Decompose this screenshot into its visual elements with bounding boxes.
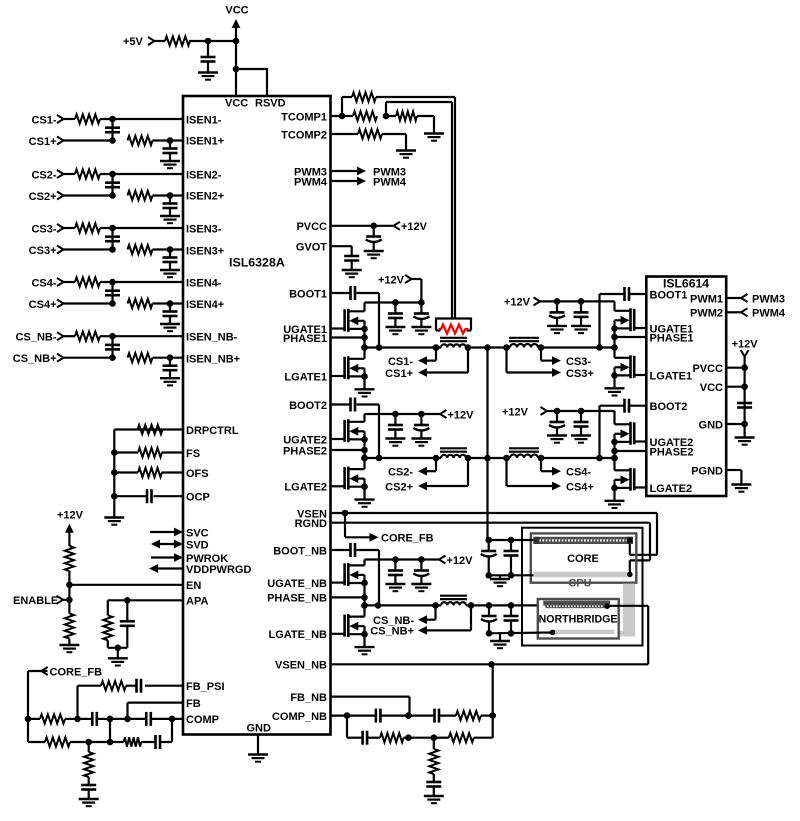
capacitor CORE ceramic xyxy=(504,540,519,575)
net label CS3- xyxy=(31,223,63,235)
svg-text:PWM4: PWM4 xyxy=(752,308,786,320)
node FB_PSI tap xyxy=(74,716,81,723)
net label CS2+ xyxy=(29,191,64,203)
bar CPU gray L horizontal xyxy=(552,631,635,637)
svg-text:+5V: +5V xyxy=(123,36,144,48)
svg-text:CS3-: CS3- xyxy=(566,356,591,368)
MOSFET phase2 high-side xyxy=(331,419,365,442)
svg-text:CS2+: CS2+ xyxy=(29,191,57,203)
label CORE xyxy=(567,553,599,565)
wire CS_NB- input xyxy=(64,335,184,337)
net label CS2+ xyxy=(385,481,413,493)
wire VCC U2 pin xyxy=(726,383,748,390)
wire CS2- input xyxy=(64,173,184,175)
capacitor NB ceramic xyxy=(504,605,519,633)
ground phase1 low-side xyxy=(355,389,375,396)
svg-text:LGATE1: LGATE1 xyxy=(650,370,693,382)
ground phase1 rail cap1 xyxy=(385,327,405,334)
svg-text:PWM4: PWM4 xyxy=(373,176,407,188)
wire PWM2 input xyxy=(726,308,786,320)
wire VCORE feed vertical xyxy=(486,348,488,541)
node COMP tap xyxy=(169,716,176,723)
node L_NB terminals xyxy=(432,602,474,609)
MOSFET phase1 low-side xyxy=(331,356,365,379)
IC U1 ISL6328A controller body xyxy=(183,96,331,735)
wire phase4 low-side drain xyxy=(613,458,615,470)
node phaseNB rail caps xyxy=(392,556,425,563)
svg-text:UGATE_NB: UGATE_NB xyxy=(267,578,327,590)
capacitor bootstrap phase1 xyxy=(351,286,356,300)
net label CS2- xyxy=(388,467,413,479)
net label ENABLE xyxy=(13,595,63,607)
bar CPU gray L vertical xyxy=(623,584,635,637)
node CORE top sense xyxy=(627,538,633,544)
node L2 terminals xyxy=(433,455,472,462)
wire VSEN_NB sense xyxy=(331,606,649,665)
resistor APA xyxy=(103,615,112,640)
ground U2 GND xyxy=(735,438,755,445)
svg-text:LGATE2: LGATE2 xyxy=(284,482,327,494)
capacitor CS3+ filter xyxy=(163,250,178,270)
svg-text:ENABLE: ENABLE xyxy=(13,595,58,607)
wire +12V phase3 stub xyxy=(540,300,557,302)
wire CS4- sense xyxy=(541,458,561,476)
capacitor CS2+ filter xyxy=(163,196,178,216)
svg-text:PWM2: PWM2 xyxy=(690,308,723,320)
resistor COMP_NB shunt xyxy=(429,738,438,774)
box CPU outline xyxy=(522,528,643,646)
net label CS_NB+ xyxy=(13,353,64,365)
capacitor NB bulk xyxy=(481,605,497,633)
svg-text:CORE_FB: CORE_FB xyxy=(50,666,103,678)
svg-text:SVD: SVD xyxy=(186,539,209,551)
svg-text:VCC: VCC xyxy=(225,5,248,17)
wire VCORE node line upper xyxy=(365,346,615,348)
box CORE outline xyxy=(531,533,637,582)
box NORTHBRIDGE outline xyxy=(538,599,619,639)
wire FB branch xyxy=(128,703,184,719)
node NB return row xyxy=(486,630,515,637)
svg-text:LGATE1: LGATE1 xyxy=(284,371,327,383)
wire +5V to VCC xyxy=(155,40,236,42)
net label +12V at PVCC xyxy=(394,221,428,233)
capacitor CS2-/CS2+ differential xyxy=(105,174,120,196)
wire PVCC pin xyxy=(331,225,394,227)
net label CS3- xyxy=(566,356,591,368)
wire phase4 high-side drain to +12V rail xyxy=(557,411,615,424)
wire TCOMP1 to thermistor xyxy=(386,102,452,319)
resistor CS2- series xyxy=(75,169,100,178)
resistor TCOMP2 series xyxy=(358,129,382,138)
ground CS4+ cap xyxy=(160,324,180,331)
net label CS_NB+ xyxy=(370,626,414,638)
capacitor CS_NB+ filter xyxy=(163,358,178,378)
wire GVOT pin xyxy=(331,246,352,256)
wire PHASE phase4 pin xyxy=(615,450,647,452)
capacitor PVCC decoupling xyxy=(366,226,382,251)
node +5V junction xyxy=(205,38,240,45)
wire FB row1 xyxy=(28,718,183,720)
wire BOOT phase3 xyxy=(600,294,647,348)
svg-text:BOOT_NB: BOOT_NB xyxy=(273,545,327,557)
ground phase4 rail cap1 xyxy=(547,436,567,443)
ground phase4 rail cap2 xyxy=(571,436,591,443)
wire phase4 switch-node bus xyxy=(613,434,615,458)
net label +12V phase1 feed xyxy=(378,274,412,286)
node phase4 bus junctions xyxy=(611,439,618,462)
svg-text:CS1-: CS1- xyxy=(31,114,56,126)
wire +12V phase2 stub xyxy=(421,413,440,415)
ground FB shunt xyxy=(79,799,99,806)
svg-text:DRPCTRL: DRPCTRL xyxy=(186,425,239,437)
svg-text:CS4-: CS4- xyxy=(566,467,591,479)
svg-text:CS1-: CS1- xyxy=(388,356,413,368)
ground +5V cap xyxy=(198,73,218,80)
ground phase3 rail cap2 xyxy=(571,326,591,333)
capacitor CS3-/CS3+ differential xyxy=(105,228,120,250)
wire CS4+ sense xyxy=(507,458,562,490)
wire PHASE phase1 pin xyxy=(331,336,365,338)
wire DRPCTRL pin xyxy=(114,430,183,518)
node phase4 low-side source xyxy=(611,485,618,492)
wire TCOMP2 pin xyxy=(331,134,407,150)
resistor CS1+ series xyxy=(128,136,153,145)
wire PGND U2 pin xyxy=(726,470,741,484)
resistor FB row1 xyxy=(40,714,65,723)
capacitor bootstrap phase2 xyxy=(351,398,356,412)
wire TCOMP1 pin xyxy=(331,115,354,117)
thermistor box xyxy=(436,319,471,331)
svg-text:PVCC: PVCC xyxy=(692,363,723,375)
capacitor COMP_NB a xyxy=(376,709,381,723)
wire phase3 low-side drain xyxy=(613,348,615,358)
wire OFS pin xyxy=(114,471,183,473)
svg-text:FB_PSI: FB_PSI xyxy=(186,681,225,693)
ground GVOT cap xyxy=(342,270,362,277)
wire CS2+ input xyxy=(64,194,184,196)
node phase2 bus junctions xyxy=(361,436,368,461)
MOSFET phase3 high-side xyxy=(615,308,647,331)
node PVCC junction xyxy=(370,223,377,230)
node CS2- junction xyxy=(109,171,116,178)
resistor COMP_NB row2 b xyxy=(449,733,474,742)
wire phase4 low-side source xyxy=(613,480,615,501)
net label CS3+ xyxy=(566,368,594,380)
svg-text:+12V: +12V xyxy=(502,406,529,418)
resistor DRPCTRL xyxy=(138,425,163,434)
net label +12V phase3 xyxy=(504,297,540,309)
svg-text:+12V: +12V xyxy=(447,555,474,567)
svg-text:VCC: VCC xyxy=(700,382,723,394)
svg-text:VDDPWRGD: VDDPWRGD xyxy=(186,564,251,576)
ground phase2 low-side xyxy=(355,500,375,507)
node CS1+ cap junction xyxy=(167,137,174,144)
capacitor OCP xyxy=(147,489,152,503)
node COMP_NB right xyxy=(489,712,496,719)
capacitor CS_NB-/CS_NB+ differential xyxy=(105,336,120,358)
capacitor FB row1 a xyxy=(92,712,97,726)
node CS3+ cap junction xyxy=(167,246,174,253)
svg-text:PVCC: PVCC xyxy=(296,221,327,233)
resistor TCOMP1 lower xyxy=(353,111,377,120)
capacitor bootstrap phaseNB xyxy=(351,543,356,557)
svg-text:GND: GND xyxy=(247,723,272,735)
node OFS junction xyxy=(111,469,118,476)
node L1 terminals xyxy=(433,344,472,351)
svg-text:CS3+: CS3+ xyxy=(29,245,57,257)
resistor TCOMP1 upper xyxy=(352,92,376,101)
svg-text:PHASE2: PHASE2 xyxy=(283,445,327,457)
power flag VCC xyxy=(225,5,248,97)
bar NORTHBRIDGE bottom gray xyxy=(551,630,614,634)
net label CS1+ xyxy=(385,368,413,380)
svg-text:CORE: CORE xyxy=(567,553,599,565)
wire VDDPWRGD output xyxy=(149,564,183,573)
svg-text:ISEN1+: ISEN1+ xyxy=(186,135,224,147)
node TCOMP1 junction B xyxy=(383,113,390,120)
node ENABLE tap xyxy=(66,597,73,604)
node CS4+ junction xyxy=(109,300,116,307)
ground phase3 rail cap1 xyxy=(547,326,567,333)
svg-text:GVOT: GVOT xyxy=(296,242,327,254)
capacitor FB_PSI xyxy=(137,679,142,693)
wire SVC input xyxy=(150,528,183,537)
svg-text:CS_NB+: CS_NB+ xyxy=(13,353,57,365)
node CS_NB+ junction xyxy=(109,354,116,361)
node CS_NB+ cap junction xyxy=(167,354,174,361)
node phase2 rail caps xyxy=(392,411,425,418)
node FB row2 shunt tap xyxy=(85,739,92,746)
wire phaseNB high-side drain to +12V rail xyxy=(365,560,422,566)
wire PVCC U2 pin xyxy=(726,364,748,371)
svg-text:LGATE_NB: LGATE_NB xyxy=(269,629,328,641)
resistor CS_NB- series xyxy=(75,332,100,341)
wire CS1+ input xyxy=(64,139,184,141)
node FB row1 mid xyxy=(107,716,114,723)
node APA junction xyxy=(124,597,131,604)
node CS2+ cap junction xyxy=(167,192,174,199)
wire +12V phase1 feed xyxy=(412,279,422,303)
svg-text:PWM1: PWM1 xyxy=(690,293,723,305)
resistor CS4- series xyxy=(75,277,100,286)
IC U1 top pin labels VCC RSVD xyxy=(225,98,286,110)
capacitor phase1 rail ceramic xyxy=(388,303,403,327)
node phase1 low-side source xyxy=(361,373,368,380)
wire CORE_FB drop xyxy=(28,671,48,742)
resistor EN divider upper xyxy=(65,546,74,571)
resistor CS2+ series xyxy=(128,191,153,200)
wire BOOT phaseNB xyxy=(331,550,380,605)
MOSFET phase2 low-side xyxy=(331,467,365,490)
net label CORE_FB input xyxy=(41,666,102,678)
node VCORE upper junctions xyxy=(361,344,618,351)
svg-text:PHASE2: PHASE2 xyxy=(650,446,694,458)
capacitor +5V decoupling xyxy=(201,41,216,72)
capacitor phase4 rail bulk xyxy=(549,411,565,435)
ground PVCC cap xyxy=(364,251,384,258)
wire phase1 low-side drain xyxy=(363,348,365,359)
svg-text:CS1+: CS1+ xyxy=(385,368,413,380)
node VCORE lower junctions xyxy=(361,455,618,462)
wire APA gnd stem xyxy=(117,648,119,658)
svg-text:CS_NB-: CS_NB- xyxy=(16,332,57,344)
wire FB rows vertical xyxy=(109,719,111,742)
svg-text:LGATE2: LGATE2 xyxy=(650,483,693,495)
ground phase3 low-side xyxy=(605,388,625,395)
node FB row2 mid xyxy=(107,739,114,746)
svg-text:GND: GND xyxy=(699,419,724,431)
capacitor phase2 rail ceramic xyxy=(388,414,403,438)
svg-text:ISL6328A: ISL6328A xyxy=(229,256,285,270)
net label +12V phase4 xyxy=(502,406,547,418)
capacitor U2 VCC decoupling xyxy=(737,403,752,408)
ground U2 PGND xyxy=(731,485,751,492)
svg-text:FB: FB xyxy=(186,698,201,710)
svg-text:CS1+: CS1+ xyxy=(29,136,57,148)
wire phase3 switch-node bus xyxy=(613,320,615,347)
wire PHASE phase2 pin xyxy=(331,449,365,451)
resistor FS xyxy=(138,448,162,457)
ground CS_NB+ cap xyxy=(160,378,180,385)
node phase1 bus junctions xyxy=(361,326,368,351)
node NORTHBRIDGE top sense xyxy=(604,603,610,609)
svg-text:+12V: +12V xyxy=(732,338,759,350)
net label +12V EN divider xyxy=(57,510,84,546)
capacitor bootstrap phase3 xyxy=(625,287,630,301)
label CPU xyxy=(568,578,591,590)
svg-text:TCOMP1: TCOMP1 xyxy=(281,111,327,123)
inductor L4 xyxy=(509,448,539,458)
wire phase2 low-side drain xyxy=(363,458,365,469)
wire PWM4 output xyxy=(331,176,407,188)
IC U1 right pin labels xyxy=(267,111,328,723)
node VSEN CORE_FB tap xyxy=(342,510,349,517)
node CS3- junction xyxy=(109,225,116,232)
ground DRPCTRL rail xyxy=(104,518,124,525)
wire CORE_FB output xyxy=(345,513,434,545)
node VCC-RSVD tap xyxy=(233,66,240,73)
svg-text:ISEN4-: ISEN4- xyxy=(186,277,222,289)
bar CORE bottom gray xyxy=(534,572,628,578)
ground CORE caps xyxy=(490,579,510,586)
resistor CS4+ series xyxy=(128,299,153,308)
svg-text:VSEN_NB: VSEN_NB xyxy=(275,660,327,672)
capacitor GVOT xyxy=(344,256,359,270)
resistor FB row2 b xyxy=(124,737,142,746)
resistor CS_NB+ series xyxy=(128,353,153,362)
wire OCP pin xyxy=(114,495,183,497)
node phase4 rail caps xyxy=(554,408,585,415)
wire phaseNB low-side source xyxy=(363,626,365,647)
MOSFET phaseNB high-side xyxy=(331,563,365,586)
node CS1- junction xyxy=(109,116,116,123)
resistor CS3- series xyxy=(75,223,100,232)
node CS4- junction xyxy=(109,279,116,286)
svg-text:CPU: CPU xyxy=(568,578,591,590)
svg-text:BOOT1: BOOT1 xyxy=(650,289,688,301)
svg-text:ISEN3+: ISEN3+ xyxy=(186,245,224,257)
wire phase3 high-side drain to +12V rail xyxy=(557,301,615,310)
IC U2 ISL6614 driver body xyxy=(646,277,726,497)
capacitor bootstrap phase4 xyxy=(625,399,630,413)
wire phase1 switch-node bus xyxy=(363,321,365,348)
wire CS4- input xyxy=(64,281,184,283)
svg-text:ISEN3-: ISEN3- xyxy=(186,223,222,235)
IC U2 left pin labels xyxy=(650,289,694,495)
svg-text:PWM3: PWM3 xyxy=(752,293,785,305)
MOSFET phase1 high-side xyxy=(331,309,365,332)
svg-text:CS4-: CS4- xyxy=(31,277,56,289)
net label CS3+ xyxy=(29,245,64,257)
net label CS1+ xyxy=(29,136,64,148)
svg-text:ISEN1-: ISEN1- xyxy=(186,114,222,126)
wire phase3 low-side source xyxy=(613,367,615,388)
wire FB row2 xyxy=(28,719,172,742)
wire phase2 switch-node bus xyxy=(363,431,365,458)
node L3 terminals xyxy=(503,344,544,351)
wire FB_NB branch xyxy=(331,697,410,716)
node L4 terminals xyxy=(503,455,544,462)
svg-text:CS2-: CS2- xyxy=(31,169,56,181)
node phase3 bus junctions xyxy=(611,325,618,351)
node CS2+ junction xyxy=(109,192,116,199)
svg-text:ISEN_NB-: ISEN_NB- xyxy=(186,332,238,344)
ground CS1+ cap xyxy=(160,161,180,168)
ground TCOMP1 xyxy=(424,134,444,141)
net label CS4- xyxy=(31,277,63,289)
IC U2 right pin labels xyxy=(690,293,723,477)
node phaseNB low-side source xyxy=(361,631,368,638)
wire CS1- sense xyxy=(418,348,436,366)
capacitor phase3 rail bulk xyxy=(549,301,565,325)
node VNB junctions xyxy=(361,602,514,609)
wire BOOT phase1 xyxy=(331,293,380,348)
ground phase1 rail cap2 xyxy=(411,327,431,334)
node CORE bottom sense xyxy=(627,572,633,578)
wire phase1 high-side drain to +12V rail xyxy=(365,303,422,312)
svg-text:CS4+: CS4+ xyxy=(566,481,594,493)
net label CS4+ xyxy=(566,481,594,493)
resistor CS1- series xyxy=(75,114,100,123)
capacitor phaseNB rail bulk xyxy=(413,560,429,584)
wire COMP_NB row2 xyxy=(347,664,493,737)
net label CS2- xyxy=(31,169,63,181)
socket bar CORE top xyxy=(533,537,633,544)
svg-text:ISEN2-: ISEN2- xyxy=(186,169,222,181)
node CS1+ junction xyxy=(109,137,116,144)
wire CORE return row xyxy=(489,574,534,576)
node COMP_NB row2 junctions xyxy=(405,734,437,741)
net label +12V at U2 xyxy=(732,338,759,356)
svg-text:BOOT2: BOOT2 xyxy=(650,401,688,413)
net label +5V xyxy=(123,36,155,48)
node phase2 low-side source xyxy=(361,483,368,490)
wire CS2+ sense xyxy=(418,458,468,490)
capacitor FB shunt xyxy=(81,777,96,799)
node COMP_NB mid xyxy=(405,712,412,719)
label NORTHBRIDGE xyxy=(539,614,618,626)
svg-text:PHASE1: PHASE1 xyxy=(650,332,694,344)
capacitor COMP_NB shunt xyxy=(426,774,441,796)
wire phase2 high-side drain to +12V rail xyxy=(365,414,422,422)
capacitor CORE bulk xyxy=(481,540,497,575)
ground phase2 rail cap1 xyxy=(385,439,405,446)
wire GND pin xyxy=(257,735,259,754)
wire RGND sense xyxy=(331,523,651,575)
wire phase2 low-side source xyxy=(363,479,365,500)
wire CORE vcc row xyxy=(488,539,534,541)
node COMP_NB tap xyxy=(344,712,351,719)
